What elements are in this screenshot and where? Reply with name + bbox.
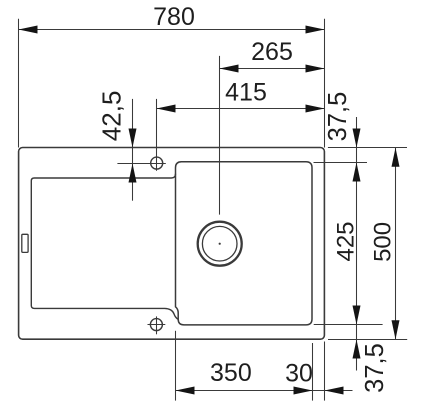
svg-text:350: 350: [210, 359, 252, 387]
svg-text:780: 780: [153, 3, 195, 31]
svg-text:37,5: 37,5: [361, 343, 389, 393]
svg-text:500: 500: [369, 222, 396, 262]
svg-text:37,5: 37,5: [324, 92, 352, 142]
svg-text:265: 265: [251, 38, 293, 66]
svg-text:42,5: 42,5: [97, 91, 127, 142]
svg-text:425: 425: [332, 221, 359, 261]
svg-text:415: 415: [225, 78, 267, 106]
svg-text:30: 30: [285, 359, 313, 387]
